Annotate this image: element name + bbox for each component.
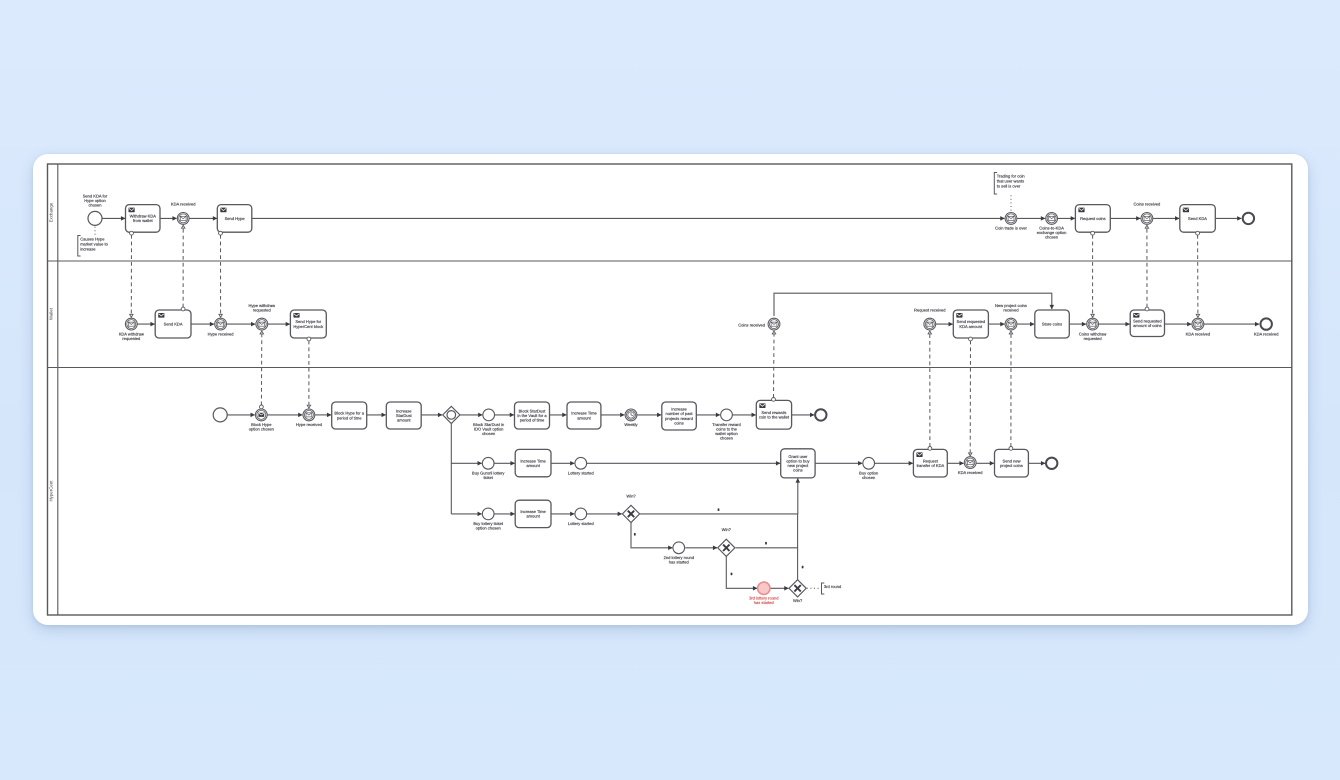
flow label: label y1 xyxy=(718,508,720,511)
white diagram panel xyxy=(33,154,1308,625)
flow: KDA received to Send new project coins xyxy=(976,462,994,464)
flow: Block StarDust option to Block StarDust task xyxy=(495,414,514,416)
start event: start (HyperCent) xyxy=(213,408,227,422)
svg-text:Wallet: Wallet xyxy=(49,307,54,320)
flow: start to Block Hype option chosen xyxy=(227,414,254,416)
end event: end (HyperCent B) xyxy=(1046,458,1057,469)
flow: Hype withdraw requested to Send Hype for HyperCent block xyxy=(268,323,290,325)
flow: Send rewards task to end A xyxy=(792,414,815,416)
svg-text:has started: has started xyxy=(754,600,774,605)
svg-text:coins: coins xyxy=(793,468,802,473)
message flow: Request coins -> Coins withdraw requested xyxy=(1091,231,1095,317)
svg-text:amount of coins: amount of coins xyxy=(1133,323,1162,328)
lane divider Wallet/HyperCent xyxy=(48,367,1292,369)
flow: Hype received to Hype withdraw requested xyxy=(227,323,255,325)
start event: Send KDA for Hype option chosen xyxy=(83,193,108,225)
svg-text:option chosen: option chosen xyxy=(476,526,501,531)
svg-text:requested: requested xyxy=(122,336,140,341)
svg-text:KDA received: KDA received xyxy=(958,470,983,475)
end event: end (HyperCent A) xyxy=(815,409,826,420)
lane divider Exchange/Wallet xyxy=(48,260,1292,262)
flow: Send requested KDA amount to New project coins received xyxy=(988,323,1004,325)
flow label: label y3 xyxy=(802,566,804,569)
flow: New project coins received to Store coins xyxy=(1017,323,1034,325)
svg-text:period of time: period of time xyxy=(337,415,362,420)
svg-text:Send KDA: Send KDA xyxy=(164,322,183,327)
task: Block Hype for a period of time xyxy=(332,402,367,429)
flow: 2nd lottery round to Win2 xyxy=(685,547,717,549)
svg-text:project coins: project coins xyxy=(1000,463,1023,468)
flow: Request received to Send requested KDA amount xyxy=(936,323,953,325)
svg-text:amount: amount xyxy=(526,514,540,519)
task: Send requested KDA amount xyxy=(953,310,988,338)
svg-text:option chosen: option chosen xyxy=(249,427,274,432)
flow: gateway down-branch xyxy=(450,424,452,514)
event: Coins withdraw requested xyxy=(1079,318,1107,341)
annotation: 3rd round xyxy=(807,583,841,594)
flow: start to Withdraw KDA xyxy=(102,217,125,219)
svg-text:Send KDA: Send KDA xyxy=(1188,216,1207,221)
flow: Hype received to Block Hype for a period of time xyxy=(315,414,331,416)
svg-text:requested: requested xyxy=(1084,336,1102,341)
flow: Send KDA to Hype received xyxy=(191,323,214,325)
svg-text:chosen: chosen xyxy=(720,436,733,441)
event: KDA received xyxy=(171,202,196,225)
event: Hype received (wallet) xyxy=(208,318,234,336)
flow: Buy Gurorli ticket to Increase Time B xyxy=(494,462,514,464)
pool boundary xyxy=(48,164,1292,615)
svg-text:HyperCent: HyperCent xyxy=(49,480,54,502)
event: Hype withdraw requested xyxy=(249,303,276,330)
flow: Send KDA to end xyxy=(1215,217,1241,219)
flow: Send requested amount of coins to KDA received xyxy=(1165,323,1192,325)
lane label: HyperCent xyxy=(49,480,54,502)
flow: Block Hype task to Increase StarDust amount xyxy=(367,414,386,416)
event: Request received xyxy=(914,307,946,330)
message flow: Send requested amount of coins -> Coins received (exchange) xyxy=(1145,225,1149,311)
end event: end (wallet) xyxy=(1254,318,1279,336)
task: Send requested amount of coins xyxy=(1130,310,1164,337)
svg-text:Weekly: Weekly xyxy=(624,422,638,427)
svg-text:Lottery started: Lottery started xyxy=(568,521,594,526)
event: KDA withdraw requested xyxy=(119,318,144,341)
event: KDA received (wallet) xyxy=(1186,318,1211,336)
svg-text:KDA amount: KDA amount xyxy=(959,324,983,329)
task: Grant user option to buy new project coins xyxy=(781,449,815,478)
timer event: Weekly xyxy=(624,409,638,427)
svg-text:Exchange: Exchange xyxy=(49,202,54,222)
svg-text:to sell is over: to sell is over xyxy=(997,184,1021,189)
lane label: Wallet xyxy=(49,307,54,320)
svg-text:Request received: Request received xyxy=(914,307,946,312)
svg-text:coins: coins xyxy=(674,420,683,425)
end event: end (exchange) xyxy=(1243,213,1254,224)
svg-text:chosen: chosen xyxy=(862,475,875,480)
svg-text:Coins received: Coins received xyxy=(1134,202,1161,207)
task: Request coins xyxy=(1075,205,1110,233)
gateway: Win? (3) xyxy=(789,580,806,604)
flow: Send new project coins to end B xyxy=(1028,462,1045,464)
gateway: Win? (1) xyxy=(622,493,639,522)
flow: Increase Time amount A to Weekly xyxy=(601,414,624,416)
flow: Request coins to Coins received ev xyxy=(1110,217,1140,219)
task: Send KDA (exchange) xyxy=(1180,205,1216,233)
event: Buy option chosen xyxy=(859,457,878,480)
flow: Increase Time B to Lottery started B xyxy=(551,462,574,464)
pool label column xyxy=(57,164,59,615)
flow: KDA received to Send Hype xyxy=(189,217,217,219)
message flow: Withdraw KDA -> KDA withdraw requested xyxy=(130,231,134,317)
svg-text:amount: amount xyxy=(526,463,540,468)
svg-text:requested: requested xyxy=(253,307,271,312)
flow: Coins withdraw requested to Send requested amount of coins xyxy=(1099,323,1130,325)
svg-text:has started: has started xyxy=(669,560,689,565)
flow: Coins received to Store coins xyxy=(774,293,1052,316)
svg-text:Hype received: Hype received xyxy=(208,331,234,336)
flow: Weekly to Increase number task xyxy=(637,414,661,416)
flow: Coin trade is over to Coins-to-KDA xyxy=(1017,217,1045,219)
svg-text:KDA received: KDA received xyxy=(171,202,196,207)
flow: Coins-to-KDA to Request coins xyxy=(1058,217,1075,219)
svg-text:Send Hype: Send Hype xyxy=(225,216,246,221)
event: Lottery started (B) xyxy=(568,457,594,475)
event: Lottery started (C) xyxy=(568,508,594,526)
flow: Block Hype option chosen to Hype received xyxy=(268,414,303,416)
lane label: Exchange xyxy=(49,202,54,222)
event: 2nd lottery round has started xyxy=(664,542,694,565)
task: Increase StarDust amount xyxy=(386,402,421,429)
task: Send Hype xyxy=(217,205,252,233)
task: Withdraw KDA from wallet xyxy=(126,205,161,233)
annotation: Causes Hype market value to increase xyxy=(78,227,109,256)
event: New project coins received xyxy=(995,303,1027,330)
message flow: Request transfer of KDA -> Request received xyxy=(928,331,932,450)
svg-text:3rd round: 3rd round xyxy=(824,584,841,589)
flow: KDA received to end (wallet) xyxy=(1204,323,1259,325)
flow: gateway to Block StarDust option xyxy=(460,414,482,416)
message flow: Send rewards coin -> Coins received (wallet) xyxy=(772,331,776,401)
task: Increase number of past projects reward coins xyxy=(662,402,697,430)
svg-text:from wallet: from wallet xyxy=(133,218,153,223)
flow: Coins received ev to Send KDA xyxy=(1153,217,1179,219)
svg-text:coin to the wallet: coin to the wallet xyxy=(759,415,790,420)
svg-text:HyperCent block: HyperCent block xyxy=(293,324,324,329)
event: Buy Gurorli lottery ticket xyxy=(472,457,505,480)
task: Send KDA (wallet) xyxy=(155,310,191,338)
flow: Send Hype to Coin trade is over xyxy=(252,217,1004,219)
event: Coin trade is over xyxy=(995,213,1027,231)
flow: gateway to Buy lottery ticket option chosen xyxy=(451,513,481,515)
event: Coins received (wallet) xyxy=(738,318,780,330)
flow label: label n2 xyxy=(731,573,733,576)
gateway: Win? (2) xyxy=(718,527,735,556)
svg-text:Hype received: Hype received xyxy=(296,422,322,427)
flow: Increase StarDust amount to gateway xyxy=(421,414,442,416)
svg-text:increase: increase xyxy=(80,247,96,252)
event: KDA received (HyperCent) xyxy=(958,457,983,475)
flow: Increase number task to Transfer reward option xyxy=(696,414,720,416)
event: Coins received (exchange) xyxy=(1134,202,1161,225)
svg-text:Coin trade is over: Coin trade is over xyxy=(995,226,1027,231)
flow: Request transfer of KDA to KDA received xyxy=(947,462,963,464)
svg-text:KDA received: KDA received xyxy=(1186,331,1211,336)
flow: Win3 yes up to merge xyxy=(797,515,799,580)
flow label: label y2 xyxy=(765,542,767,545)
svg-text:Request coins: Request coins xyxy=(1080,216,1106,221)
task: Store coins xyxy=(1035,310,1070,338)
message flow: Send new project coins -> New project coins received xyxy=(1009,331,1013,450)
flow: Win2 no down to 3rd lottery round xyxy=(726,557,757,589)
svg-text:Win?: Win? xyxy=(626,493,636,498)
svg-text:chosen: chosen xyxy=(1045,235,1058,240)
svg-text:amount: amount xyxy=(397,418,411,423)
svg-text:ticket: ticket xyxy=(483,475,493,480)
flow: Win1 yes to Grant user option (up) xyxy=(640,479,798,514)
svg-text:transfer of KDA: transfer of KDA xyxy=(917,463,945,468)
flow: Increase Time C to Lottery started C xyxy=(551,513,574,515)
flow: Grant user option to Buy option chosen xyxy=(815,462,862,464)
flow: Withdraw KDA to KDA received xyxy=(160,217,177,219)
annotation: Trading for coin that user wants to sell is over xyxy=(994,173,1024,212)
svg-text:period of time: period of time xyxy=(520,418,545,423)
message flow: Send requested KDA amount -> KDA received (HyperCent) xyxy=(969,337,973,456)
event: Buy lottery ticket option chosen xyxy=(473,508,504,531)
message flow: Send Hype -> Hype received (wallet) xyxy=(219,231,223,317)
event: Coins-to-KDA exchange option chosen xyxy=(1037,213,1067,240)
event (highlighted): 3rd lottery round has started xyxy=(749,582,778,605)
flow: Win2 yes to merge xyxy=(736,547,798,549)
message flow: Send Hype for HyperCent block -> Hype received (HyperCent) xyxy=(307,337,311,408)
svg-text:Store coins: Store coins xyxy=(1042,322,1062,327)
svg-text:KDA received: KDA received xyxy=(1254,332,1279,337)
svg-text:amount: amount xyxy=(577,415,591,420)
task: Send Hype for HyperCent block xyxy=(290,310,326,338)
svg-text:Coins received: Coins received xyxy=(738,322,765,327)
flow: Block StarDust task to Increase Time amount A xyxy=(550,414,567,416)
message flow: Send KDA (wallet) -> KDA received (exchange) xyxy=(181,225,185,311)
event: Transfer reward coins to the wallet option chosen xyxy=(712,409,740,441)
flow: Transfer reward option to Send rewards task xyxy=(733,414,756,416)
svg-text:received: received xyxy=(1003,307,1018,312)
svg-text:Win?: Win? xyxy=(793,598,803,603)
event: Hype received (HyperCent) xyxy=(296,409,322,427)
task: Request transfer of KDA xyxy=(913,449,947,477)
flow: Lottery started B to Grant user option xyxy=(587,462,780,464)
flow: KDA withdraw requested to Send KDA xyxy=(137,323,154,325)
task: Send new project coins xyxy=(995,449,1029,477)
svg-text:Win?: Win? xyxy=(722,527,732,532)
flow: Buy option chosen to Request transfer of KDA xyxy=(875,462,913,464)
message flow: Block Hype option chosen -> Hype withdraw requested xyxy=(260,331,264,409)
flow: 3rd lottery round to Win3 xyxy=(771,587,789,589)
event: Block StarDust in IDO Vault option chosen xyxy=(473,409,504,436)
gateway: inclusive gateway xyxy=(443,406,460,423)
svg-text:Lottery started: Lottery started xyxy=(568,471,594,476)
flow: gateway to Buy Gurorli lottery ticket xyxy=(451,462,481,464)
task: Block StarDust in the Vault for a period of time xyxy=(515,402,550,429)
flow: Store coins to Coins withdraw requested xyxy=(1069,323,1086,325)
event: Block Hype option chosen xyxy=(249,409,274,432)
task: Send rewards coin to the wallet xyxy=(756,400,791,429)
flow label: label n1 xyxy=(634,533,636,536)
flow: Buy lottery ticket option to Increase Time C xyxy=(494,513,514,515)
flow: Win1 no down to 2nd lottery round xyxy=(631,523,672,548)
task: Increase Time amount (A) xyxy=(567,402,601,429)
task: Increase Time amount (B) xyxy=(515,449,551,476)
task: Increase Time amount (C) xyxy=(515,500,551,527)
svg-text:chosen: chosen xyxy=(88,203,101,208)
flow: Lottery started C to Win1 xyxy=(587,513,622,515)
svg-text:chosen: chosen xyxy=(482,431,495,436)
message flow: Send KDA (exchange) -> KDA received (wallet) xyxy=(1196,231,1200,317)
